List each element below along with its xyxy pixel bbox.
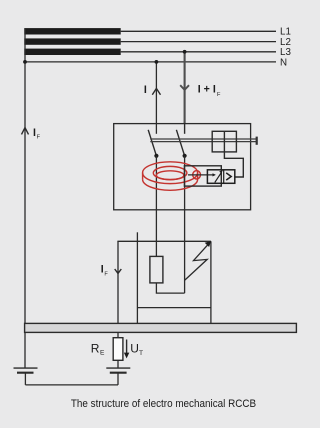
svg-text:U: U xyxy=(130,342,139,356)
wire: RE bottom xyxy=(117,360,119,368)
line L3 xyxy=(121,51,276,53)
wire: neutral conductor through toroid xyxy=(155,156,157,257)
svg-text:F: F xyxy=(37,134,41,140)
ground electrode left xyxy=(14,367,38,369)
wire: RE electrode tail xyxy=(117,373,119,385)
junction: phase branch on L3 xyxy=(183,50,187,54)
arrow: IF up on earth conductor xyxy=(22,128,29,135)
arrow: IF down on chassis earth xyxy=(115,269,122,273)
busbar L1 xyxy=(24,28,120,34)
switch contact dot right xyxy=(183,154,187,158)
switch blade right xyxy=(176,130,184,156)
load box top edge xyxy=(117,240,210,242)
svg-text:I: I xyxy=(144,84,147,96)
linkage end cap xyxy=(256,137,258,145)
switch blade left xyxy=(148,130,156,156)
wire: phase stub inside RCCB xyxy=(184,124,186,134)
wire: resistor bottom xyxy=(156,283,184,293)
wire: left electrode tail xyxy=(24,373,26,385)
busbar L3 xyxy=(24,49,120,55)
winding sense box xyxy=(184,166,221,186)
svg-text:The structure of electro mecha: The structure of electro mechanical RCCB xyxy=(71,399,256,411)
solenoid trip box xyxy=(212,131,236,152)
load inner bottom wire xyxy=(137,307,211,309)
relay input arrowhead xyxy=(213,173,216,176)
svg-text:I + I: I + I xyxy=(198,84,216,96)
relay division xyxy=(223,170,225,184)
svg-text:N: N xyxy=(280,57,287,68)
svg-text:T: T xyxy=(139,350,143,357)
earth bar (ground plane) xyxy=(25,323,297,332)
wire: underground return xyxy=(25,384,118,386)
svg-text:I: I xyxy=(33,127,36,139)
busbar L2 xyxy=(24,38,120,44)
svg-text:F: F xyxy=(217,92,221,98)
switch contact dot left xyxy=(154,154,158,158)
resistor RE xyxy=(113,338,123,361)
junction: neutral branch on N xyxy=(155,60,159,64)
svg-text:F: F xyxy=(104,272,108,278)
toroid secondary winding loop xyxy=(193,171,201,179)
wire: winding to relay xyxy=(188,174,215,176)
ground electrode under RE xyxy=(106,367,130,369)
wire: RE top xyxy=(117,332,119,337)
fault lightning bolt xyxy=(185,244,208,280)
svg-text:R: R xyxy=(91,342,100,356)
wire: phase conductor through toroid xyxy=(184,156,186,293)
load appliance: earth/chassis left edge xyxy=(117,241,119,323)
arrow: I up xyxy=(152,88,160,94)
arrow: I+IF down xyxy=(180,85,189,90)
relay (trip release) box xyxy=(207,170,234,184)
line L1 xyxy=(121,30,276,32)
line L2 xyxy=(121,41,276,43)
relay adjustment diagonal arrow xyxy=(215,172,222,182)
junction: N line to earth conductor xyxy=(23,60,27,64)
arrow UT xyxy=(126,340,128,355)
line N xyxy=(25,61,276,63)
solenoid box division xyxy=(223,131,225,152)
current transformer toroid (red core) xyxy=(143,162,198,190)
wire: solenoid to relay xyxy=(224,152,243,177)
load resistor xyxy=(150,256,163,283)
RCCB enclosure box xyxy=(114,124,251,210)
load box right edge xyxy=(210,241,212,323)
svg-text:E: E xyxy=(100,349,105,356)
load inner vertical wire xyxy=(136,232,138,323)
relay chevron symbol xyxy=(226,173,231,180)
wire: left main earth conductor xyxy=(24,28,26,368)
wire: phase branch (I+IF) upper xyxy=(184,52,186,124)
linkage bar (mechanical coupling, double line) xyxy=(150,138,256,140)
svg-text:I: I xyxy=(101,264,104,276)
fault bolt arrowhead xyxy=(205,241,211,247)
wire: neutral branch (current I) upper xyxy=(155,62,157,134)
